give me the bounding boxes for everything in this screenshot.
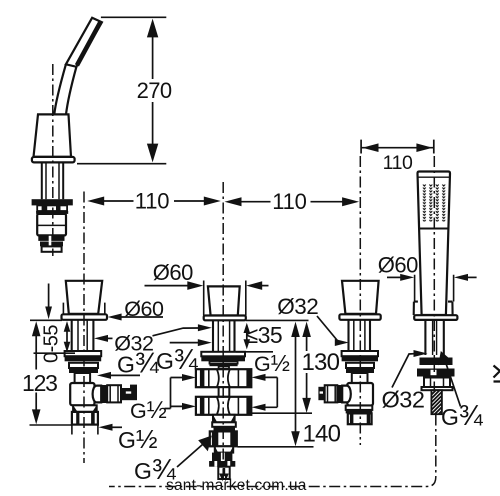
dim 270 up arrowhead [147, 19, 158, 38]
valve2 side outlet [318, 385, 350, 403]
dim 130 [252, 322, 340, 414]
label D60 valve1 [108, 297, 164, 321]
spout shank locknut black [32, 199, 73, 205]
shower shank [425, 320, 443, 355]
valve1 locknut black lower [69, 368, 98, 373]
dim 270 top reference line [101, 16, 166, 18]
tee centerline [222, 182, 224, 481]
dim 140 [238, 320, 341, 447]
label D60 shower with extension lines [378, 253, 477, 302]
label D32 shower [382, 350, 428, 413]
spout tail tip [42, 246, 62, 251]
svg-text:123: 123 [22, 370, 57, 396]
label le35 [236, 322, 282, 352]
valve1 side outlet [93, 385, 137, 403]
spout centerline [52, 64, 54, 256]
label ge (cut at right edge) [494, 366, 500, 382]
valve1 shank tube [72, 320, 94, 351]
valve2 centerline [359, 156, 361, 445]
spout deck flange [32, 157, 75, 163]
spout shank tube [42, 162, 63, 199]
svg-text:110: 110 [272, 189, 306, 214]
shower hose routing centerline [109, 415, 436, 487]
spout lower body [37, 214, 66, 236]
svg-text:110: 110 [383, 152, 413, 174]
spout shank ring [37, 205, 67, 211]
label G1/2 valve1 bottom [72, 424, 158, 454]
dim 110 top right (valve2 to shower) [361, 140, 434, 175]
tee locknut black [201, 356, 245, 361]
tee lower outlet pair [196, 397, 251, 415]
tee bottom wide black band [209, 461, 235, 467]
tee bottom threaded tip [218, 467, 229, 482]
dim 270 down arrowhead [147, 144, 158, 163]
dim 110 first (valve1 to tee) [87, 189, 221, 214]
svg-text:G½: G½ [118, 424, 158, 454]
tee ring lower [210, 361, 238, 363]
svg-text:140: 140 [303, 421, 341, 448]
tee locknut black lower [210, 364, 238, 367]
label D32 valve2 top [277, 294, 349, 346]
svg-text:270: 270 [137, 78, 172, 103]
shower threaded tail G3/4 [431, 390, 442, 414]
svg-text:110: 110 [135, 189, 169, 214]
spout tail thread black segments [38, 236, 64, 247]
shower hex nut [422, 378, 453, 391]
tee bottom nut [210, 431, 237, 446]
shower locknut bar2 black [417, 369, 455, 377]
svg-text:G½: G½ [130, 397, 167, 424]
shower escutcheon cone [414, 302, 453, 315]
valve1 ring upper [65, 351, 102, 356]
label D60 tee with extension lines [145, 260, 269, 316]
tee lower ring [212, 422, 236, 427]
label D32 valves with two arrows [94, 324, 212, 355]
valve2 shank tube [349, 320, 371, 351]
tee bottom neck [215, 446, 233, 452]
valve1 chamfer transition [73, 405, 97, 412]
svg-text:G¾: G¾ [441, 400, 484, 432]
spout locknut black lower [36, 211, 68, 214]
label G3/4 valve1 [97, 348, 160, 380]
tee neck upper [219, 366, 229, 368]
shower locknut bar1 black [420, 358, 453, 366]
tee handle [208, 286, 240, 315]
tee lower black band [214, 427, 236, 432]
svg-text:G¾: G¾ [156, 344, 199, 376]
svg-text:Ø32: Ø32 [382, 387, 425, 413]
valve2 deck plate [339, 314, 380, 320]
valve1 deck plate [62, 314, 108, 320]
valve1 plate extension ticks [63, 303, 104, 315]
svg-text:≤35: ≤35 [246, 322, 283, 348]
svg-text:Ø32: Ø32 [277, 294, 318, 319]
shower spray dots [423, 184, 447, 222]
label G1/2 tee left bracket [130, 374, 196, 424]
valve2 bottom tail nut [348, 413, 372, 424]
valve2 ring upper [342, 351, 378, 356]
dim 0-55 [34, 284, 76, 364]
spout escutcheon cone [34, 114, 72, 156]
valve1 neck [75, 373, 91, 383]
valve2 locknut black lower [346, 368, 374, 373]
label G3/4 tee [156, 339, 212, 376]
label G3/4 tee bottom [134, 436, 212, 487]
dim 270 bottom reference line [77, 163, 166, 165]
label G1/2 tee right bracket [252, 350, 290, 411]
valve2 neck [352, 373, 368, 383]
valve2 handle [342, 281, 379, 314]
valve2 lower ring [346, 406, 373, 410]
svg-text:130: 130 [302, 349, 340, 376]
tee upper outlet pair [196, 369, 251, 387]
shower centerline [433, 156, 435, 390]
valve1 ring lower [69, 363, 98, 368]
label G3/4 shower [438, 351, 484, 432]
tee shank tube [213, 320, 235, 352]
shower deck flange [414, 315, 457, 320]
spout body [54, 18, 102, 115]
valve1 centerline [83, 192, 85, 464]
valve1 locknut black upper [65, 356, 102, 361]
dim 270 vertical line [152, 34, 154, 146]
shower face bottom line [419, 228, 449, 230]
tee deck plate [204, 316, 246, 321]
svg-text:Ø60: Ø60 [153, 260, 193, 285]
valve1 bottom tail nut [72, 412, 98, 425]
valve2 ring lower [346, 363, 374, 368]
valve2 body [347, 383, 373, 406]
svg-text:0-55: 0-55 [41, 325, 63, 363]
svg-text:Ø60: Ø60 [378, 253, 418, 278]
tee ring upper [201, 352, 245, 357]
svg-text:G½: G½ [254, 350, 290, 376]
tee lower transition [213, 415, 235, 423]
valve2 lower black band [346, 410, 373, 414]
valve1 handle [66, 281, 102, 314]
valve1 body [70, 383, 94, 405]
dim 123 [22, 320, 72, 425]
valve2 locknut black upper [342, 356, 378, 361]
dim 110 second (tee to valve2) [225, 189, 360, 214]
svg-text:sant-market.com.ua: sant-market.com.ua [166, 477, 307, 494]
shower head [418, 172, 451, 316]
tee middle neck [219, 387, 230, 397]
tee bottom dark block [212, 453, 232, 461]
